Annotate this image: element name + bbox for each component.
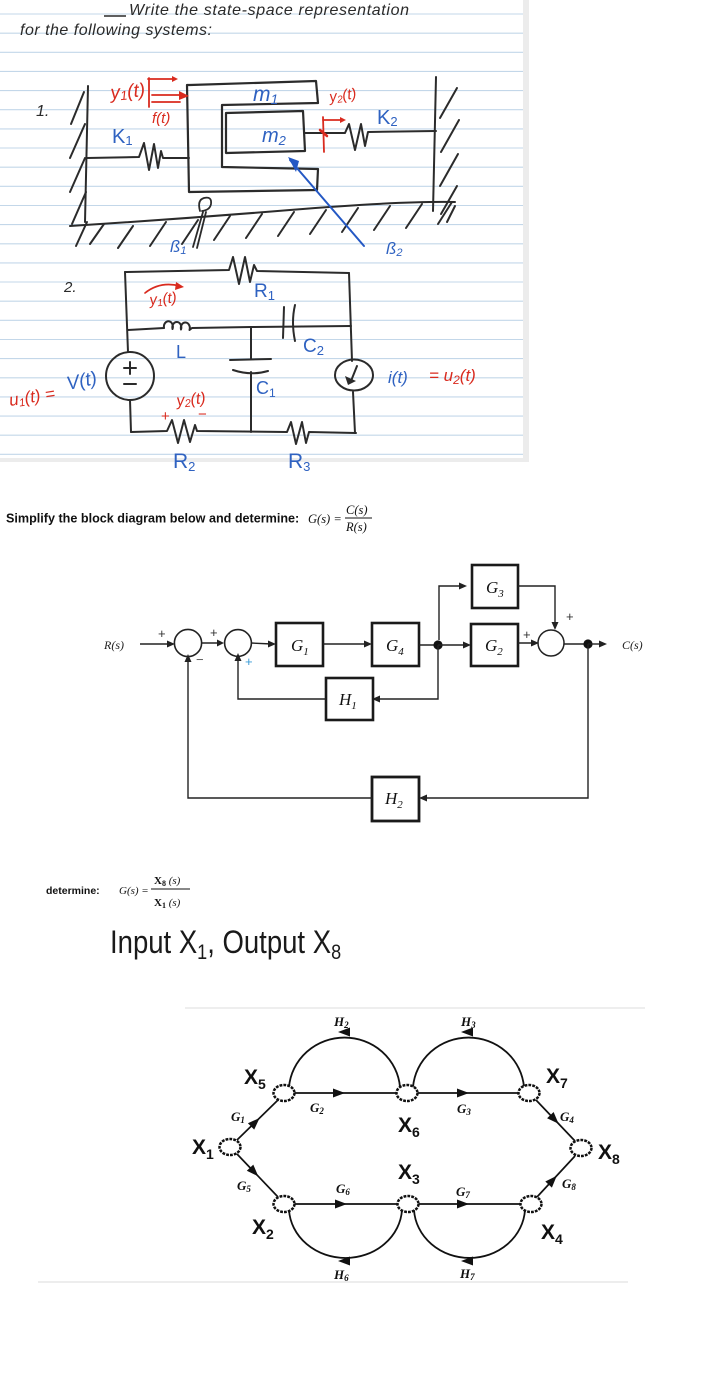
- svg-text:= u2(t): = u2(t): [429, 366, 476, 387]
- label B2: [386, 239, 403, 259]
- svg-text:+: +: [566, 609, 574, 624]
- minus sign S1: [196, 652, 204, 667]
- label f(t): [152, 110, 170, 127]
- edge G2 X5 to X6: [294, 1089, 397, 1098]
- wire S3 to output node: [564, 643, 588, 645]
- svg-text:G(s) =: G(s) =: [119, 885, 149, 897]
- wire middle vertical: [250, 327, 252, 432]
- damper B1 mark: [193, 198, 211, 248]
- label m1: [253, 83, 278, 107]
- label R1: [254, 281, 275, 303]
- svg-text:X8 (s): X8 (s): [154, 875, 181, 888]
- PAPER SECTION: [0, 0, 716, 490]
- svg-text:H6: H6: [333, 1267, 349, 1283]
- label G1: [231, 1109, 245, 1125]
- label H7: [459, 1266, 475, 1282]
- label G5: [237, 1178, 251, 1194]
- wire top with resistor R1: [125, 257, 349, 284]
- mass m1 outline: [187, 81, 318, 192]
- ground: [70, 202, 455, 248]
- plus sign S3 top: [566, 609, 574, 624]
- svg-text:G3: G3: [457, 1101, 471, 1117]
- panel border top: [185, 1007, 645, 1009]
- label C(s): [622, 638, 643, 652]
- wire left vertical: [125, 272, 128, 352]
- edge G4 X7 to X8: [536, 1100, 575, 1141]
- label B1: [170, 237, 187, 257]
- label G6: [336, 1181, 350, 1197]
- svg-text:+: +: [161, 408, 170, 425]
- label G3: [457, 1101, 471, 1117]
- wire S2 to G1: [251, 641, 276, 648]
- node after G4: [433, 640, 442, 649]
- label G2: [310, 1100, 324, 1116]
- label R(s): [103, 638, 124, 652]
- plus sign input: [158, 626, 166, 641]
- edge G3 X6 to X7: [417, 1089, 519, 1098]
- wire G4 to node: [419, 644, 438, 646]
- label u1(t)=V(t): [8, 368, 99, 411]
- label C2: [303, 336, 324, 358]
- svg-text:G6: G6: [336, 1181, 350, 1197]
- title line 1: [20, 2, 409, 39]
- label G4: [560, 1109, 574, 1125]
- svg-text:i(t): i(t): [388, 368, 408, 387]
- block G2: [471, 624, 518, 666]
- summing junction S1: [174, 629, 201, 656]
- svg-text:+: +: [245, 654, 253, 669]
- SFG SECTION: [0, 860, 716, 1378]
- feedback H1 wire from node: [372, 645, 438, 703]
- wire bottom with resistors R2 R3: [131, 420, 356, 444]
- label y1(t) circuit: [145, 282, 184, 310]
- node X2: [274, 1196, 295, 1212]
- svg-text:X3: X3: [398, 1161, 420, 1187]
- svg-text:X7: X7: [546, 1065, 568, 1091]
- block G1: [276, 623, 323, 666]
- plus sign S3 left: [523, 627, 531, 642]
- svg-text:G(s) =: G(s) =: [308, 512, 342, 526]
- summing junction S3: [538, 630, 564, 656]
- loop H2 arc X6 to X5: [289, 1028, 400, 1088]
- current source: [335, 360, 373, 391]
- svg-text:G2: G2: [310, 1100, 324, 1116]
- node X5: [274, 1085, 295, 1101]
- svg-text:X1 (s): X1 (s): [154, 897, 181, 910]
- pointer B2: [288, 157, 364, 246]
- spring K2: [305, 124, 436, 150]
- svg-text:for the following systems:: for the following systems:: [20, 22, 212, 39]
- svg-text:+: +: [523, 627, 531, 642]
- label X3: [398, 1161, 420, 1187]
- label K2: [377, 107, 398, 129]
- svg-text:C(s): C(s): [622, 638, 643, 652]
- wire H2 to S1: [185, 654, 373, 798]
- label X5: [244, 1066, 266, 1092]
- svg-text:R(s): R(s): [103, 638, 124, 652]
- label G7: [456, 1184, 470, 1200]
- wire right vertical: [349, 273, 355, 433]
- edge G5 X1 to X2: [237, 1154, 278, 1197]
- label H2: [333, 1014, 349, 1030]
- svg-text:1.: 1.: [36, 103, 49, 120]
- wire to C(s): [588, 641, 607, 648]
- edge G7 X3 to X4: [418, 1200, 521, 1209]
- problem number 2: [63, 279, 77, 296]
- svg-text:X1: X1: [192, 1136, 214, 1162]
- force f(t) arrows: [152, 91, 189, 102]
- svg-text:2.: 2.: [63, 279, 77, 296]
- svg-text:f(t): f(t): [152, 110, 170, 127]
- dash before title: [104, 15, 126, 17]
- loop H7 arc X4 to X3: [414, 1210, 525, 1266]
- node X1: [220, 1139, 241, 1155]
- wire node to G2: [438, 642, 471, 649]
- svg-text:+: +: [210, 625, 218, 640]
- svg-text:G5: G5: [237, 1178, 251, 1194]
- voltage source V: [106, 352, 154, 400]
- label X6: [398, 1114, 420, 1140]
- label y1(t) red: [108, 80, 146, 104]
- wall right: [433, 77, 459, 222]
- block H1: [326, 678, 373, 720]
- svg-text:R(s): R(s): [345, 520, 367, 534]
- label X7: [546, 1065, 568, 1091]
- svg-text:H3: H3: [460, 1014, 476, 1030]
- svg-text:X6: X6: [398, 1114, 420, 1140]
- edge G6 X2 to X3: [294, 1200, 398, 1209]
- mass m2 box: [226, 111, 305, 153]
- loop H6 arc X3 to X2: [289, 1210, 402, 1266]
- svg-text:C(s): C(s): [346, 503, 368, 517]
- svg-text:H7: H7: [459, 1266, 475, 1282]
- svg-text:L: L: [176, 342, 186, 362]
- label K1: [112, 126, 133, 148]
- plus sign S2 top: [210, 625, 218, 640]
- problem number 1: [36, 103, 49, 120]
- svg-text:X2: X2: [252, 1216, 274, 1242]
- node X7: [519, 1085, 540, 1101]
- arrow y2: [320, 117, 346, 152]
- svg-text:G7: G7: [456, 1184, 470, 1200]
- node X8: [571, 1140, 592, 1156]
- wire G2 to S3: [518, 640, 539, 647]
- svg-text:G8: G8: [562, 1176, 576, 1192]
- block G3: [472, 565, 518, 608]
- formula G(s)=C(s)/R(s): [308, 503, 372, 534]
- label X1: [192, 1136, 214, 1162]
- label R3: [288, 450, 310, 474]
- svg-text:G4: G4: [560, 1109, 574, 1125]
- svg-text:y1(t): y1(t): [108, 80, 146, 104]
- wire G1 to G4: [323, 641, 372, 648]
- determine formula: [46, 875, 190, 910]
- label m2: [262, 125, 287, 148]
- label C1: [256, 378, 276, 400]
- svg-text:Input X1, Output X8: Input X1, Output X8: [110, 925, 341, 964]
- edge G1 X1 to X5: [237, 1100, 278, 1140]
- label H3: [460, 1014, 476, 1030]
- label R2: [173, 450, 195, 474]
- output node: [583, 639, 592, 648]
- label H6: [333, 1267, 349, 1283]
- node X4: [521, 1196, 542, 1212]
- label y2(t) red: [327, 85, 357, 107]
- loop H3 arc X7 to X6: [413, 1028, 524, 1088]
- svg-text:X4: X4: [541, 1221, 563, 1247]
- label X8: [598, 1141, 620, 1167]
- heading simplify: [6, 512, 299, 526]
- wire H1 to S2: [235, 653, 327, 699]
- svg-text:X8: X8: [598, 1141, 620, 1167]
- BLOCK DIAGRAM SECTION: [0, 490, 716, 860]
- node X3: [398, 1196, 419, 1212]
- arrow y1: [148, 76, 178, 107]
- feedback H2 wire from output node: [419, 644, 588, 802]
- label X2: [252, 1216, 274, 1242]
- edge G8 X4 to X8: [537, 1156, 575, 1197]
- wire middle horizontal with inductor L: [128, 321, 351, 330]
- heading input output: [110, 925, 341, 964]
- label L: [176, 342, 186, 362]
- svg-text:+: +: [158, 626, 166, 641]
- spring K1: [87, 143, 189, 170]
- plus sign S2 bottom: [245, 654, 253, 669]
- panel border bottom: [38, 1281, 628, 1283]
- svg-text:Write the state-space represen: Write the state-space representation: [129, 2, 409, 19]
- wire G3 to S3: [518, 586, 559, 630]
- wire input: [140, 641, 175, 648]
- svg-text:determine:: determine:: [46, 885, 100, 897]
- label X4: [541, 1221, 563, 1247]
- capacitor C1: [230, 359, 271, 373]
- svg-text:G1: G1: [231, 1109, 245, 1125]
- node X6: [397, 1085, 418, 1101]
- label G8: [562, 1176, 576, 1192]
- label y2(t) with polarity: [161, 390, 207, 425]
- wire S1 to S2: [202, 640, 224, 647]
- summing junction S2: [225, 630, 252, 657]
- svg-text:Simplify the block diagram bel: Simplify the block diagram below and det…: [6, 512, 299, 526]
- svg-text:−: −: [196, 652, 204, 667]
- wall left: [70, 86, 88, 246]
- svg-text:X5: X5: [244, 1066, 266, 1092]
- block H2: [372, 777, 419, 821]
- svg-text:−: −: [198, 406, 207, 423]
- wire source to bottom: [130, 400, 131, 432]
- branch to G3: [439, 583, 467, 641]
- label i(t)=u2(t): [388, 366, 476, 387]
- block G4: [372, 623, 419, 666]
- svg-text:H2: H2: [333, 1014, 349, 1030]
- capacitor C2: [283, 305, 295, 341]
